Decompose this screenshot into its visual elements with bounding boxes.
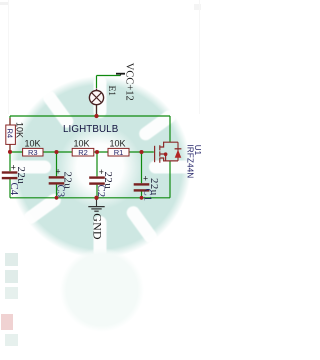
svg-text:+: +: [143, 173, 148, 183]
svg-text:R2: R2: [78, 148, 88, 157]
junction left mid: [8, 150, 12, 154]
wire mid net: [10, 151, 154, 153]
svg-text:10K: 10K: [73, 139, 89, 149]
wire top net LIGHTBULB: [10, 115, 170, 117]
capacitor C2: [89, 176, 105, 184]
mosfet bulk-source dot: [164, 152, 168, 156]
svg-text:IRFZ44N: IRFZ44N: [185, 145, 194, 179]
svg-text:C1: C1: [141, 189, 153, 202]
svg-text:+: +: [56, 167, 61, 177]
resistor R1: [108, 148, 129, 156]
wire right source: [169, 161, 171, 198]
junction R3-R2 node: [54, 150, 58, 154]
svg-text:10K: 10K: [109, 139, 125, 149]
capacitor C4: [2, 171, 18, 179]
resistor R2: [72, 148, 94, 156]
ground symbol GND: [96, 198, 98, 207]
svg-text:LIGHTBULB: LIGHTBULB: [63, 124, 119, 135]
svg-text:C3: C3: [54, 185, 66, 198]
supply VCC+12 symbol: [120, 74, 122, 76]
capacitor C3: [49, 176, 65, 184]
svg-text:C2: C2: [95, 185, 107, 198]
junction C1 bottom: [140, 196, 144, 200]
junction lamp-top wire: [94, 114, 98, 118]
junction gnd bottom: [94, 196, 98, 200]
svg-text:R3: R3: [28, 148, 38, 157]
wire C2 leads: [96, 152, 98, 198]
wire bottom net GND: [10, 197, 170, 199]
wire right drain: [169, 116, 171, 142]
wire C1 leads: [141, 152, 143, 198]
junction R2-R1 node: [95, 150, 99, 154]
wire left edge: [9, 116, 11, 198]
junction R1-gate node: [139, 150, 143, 154]
svg-text:R4: R4: [6, 129, 15, 139]
wire lamp branch to VCC: [97, 76, 121, 117]
junction C3 bottom: [55, 196, 59, 200]
resistor R4 (vertical): [9, 118, 11, 150]
transistor U1 IRFZ44N (n-mosfet): [155, 142, 182, 163]
svg-text:GND: GND: [91, 213, 105, 240]
svg-text:R1: R1: [114, 148, 124, 157]
svg-text:10K: 10K: [15, 122, 25, 138]
mosfet body diode: [175, 150, 182, 158]
svg-text:E1: E1: [106, 86, 116, 97]
wire C3 leads: [56, 152, 58, 198]
svg-text:VCC+12: VCC+12: [124, 63, 135, 101]
capacitor C1: [134, 183, 150, 191]
lamp E1: [89, 89, 103, 115]
svg-text:C4: C4: [8, 183, 20, 196]
resistor R3: [23, 148, 43, 156]
svg-text:10K: 10K: [24, 139, 40, 149]
